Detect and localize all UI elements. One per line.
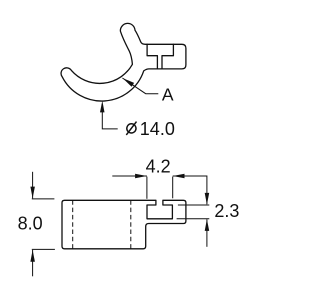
hidden line right: [130, 200, 132, 249]
svg-text:14.0: 14.0: [140, 119, 175, 139]
side view body outline: [62, 200, 186, 249]
dim 2.3 ext line bottom: [177, 218, 210, 220]
dim 2.3 arrow top: [205, 193, 210, 205]
dim 4.2 arrow right: [173, 174, 185, 178]
svg-text:2.3: 2.3: [214, 201, 239, 221]
dim 4.2 ext line right: [172, 177, 174, 199]
dim 4.2 line right + bend: [173, 176, 207, 204]
dim 4.2 ext line left: [146, 177, 148, 199]
T-slot left wall/shelf/stem: [147, 44, 157, 69]
svg-text:A: A: [162, 85, 174, 105]
dim 8.0 ext line top: [32, 198, 55, 200]
dim 8.0 line top: [32, 172, 34, 199]
clip body outline (front view): [61, 23, 186, 101]
svg-text:4.2: 4.2: [146, 156, 171, 176]
T-slot right wall/shelf/stem: [162, 44, 173, 69]
label dia14 symbol: [127, 124, 136, 133]
leader A line: [122, 78, 158, 94]
dim 2.3 line bottom: [206, 219, 208, 247]
dim 8.0 arrow top: [30, 187, 35, 199]
dim 8.0 ext line bottom: [32, 248, 55, 250]
leader A arrow: [122, 78, 134, 87]
dim 4.2 line left: [112, 175, 147, 177]
dim 4.2 arrow left: [135, 174, 147, 178]
dim 8.0 arrow bottom: [30, 250, 35, 262]
dim 2.3 ext line top: [178, 204, 209, 206]
dim 8.0 line bottom: [32, 250, 34, 276]
svg-text:8.0: 8.0: [18, 214, 43, 234]
leader dia14 line: [102, 104, 117, 129]
hidden line left: [72, 200, 74, 249]
dim 2.3 arrow bottom: [205, 219, 210, 231]
leader dia14 arrow: [100, 101, 105, 113]
